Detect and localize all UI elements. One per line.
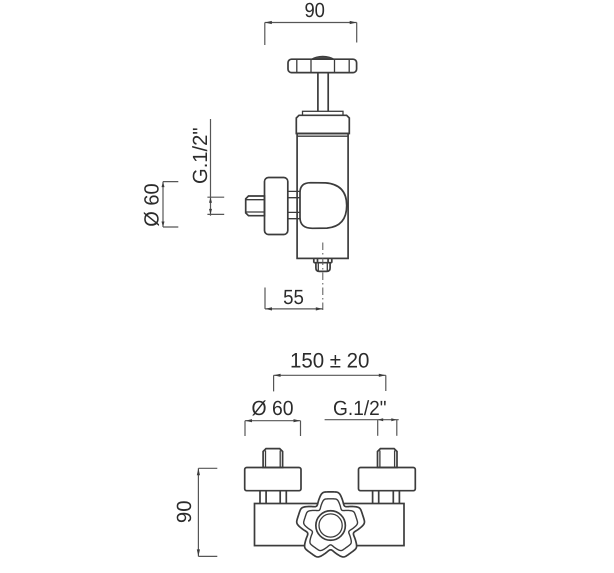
- body (side view): [297, 134, 348, 259]
- main body (front): [255, 504, 405, 546]
- side flange (rounded): [265, 178, 288, 235]
- svg-text:G.1/2": G.1/2": [189, 128, 212, 185]
- star knob outer outline: [297, 492, 365, 557]
- dimension 55 (bottom width): [265, 286, 323, 311]
- svg-text:Ø 60: Ø 60: [252, 397, 294, 420]
- dimension Ø 60 (flange diameter): [140, 182, 178, 227]
- stem: [318, 73, 328, 112]
- left nipple (front): [263, 449, 283, 468]
- svg-text:90: 90: [173, 501, 196, 524]
- centerline (dash-dot): [322, 243, 324, 311]
- connecting pipe lines: [288, 191, 300, 218]
- dimension G.1/2" (right nipple): [325, 397, 399, 436]
- handwheel (side view): [288, 56, 357, 72]
- bonnet: [296, 115, 349, 133]
- svg-text:Ø 60: Ø 60: [140, 183, 163, 226]
- dimension 150 +/- 20: [274, 350, 386, 392]
- dimension Ø 60 (left flange): [245, 397, 301, 436]
- cam (egg shape inside body): [300, 183, 347, 229]
- svg-text:150 ± 20: 150 ± 20: [290, 350, 370, 373]
- right nipple (front): [378, 449, 398, 468]
- threaded nipple (side): [246, 196, 265, 216]
- left flange: [245, 468, 301, 491]
- right flange: [359, 468, 416, 491]
- dimension G.1/2" (side nipple): [189, 119, 224, 216]
- stem plate: [303, 111, 344, 115]
- dimension 90 (height, left): [173, 468, 218, 556]
- right pipe below flange: [373, 491, 400, 504]
- left pipe below flange: [260, 491, 286, 504]
- svg-text:55: 55: [283, 286, 304, 309]
- svg-text:90: 90: [304, 0, 325, 22]
- knob inner circle: [319, 514, 342, 537]
- bottom outlet fitting: [314, 258, 332, 271]
- dimension 90 (width, top): [265, 0, 357, 45]
- star knob inner outline: [304, 499, 358, 551]
- body shoulder line: [297, 135, 348, 137]
- svg-text:G.1/2": G.1/2": [333, 397, 387, 420]
- knob outer circle: [316, 511, 346, 541]
